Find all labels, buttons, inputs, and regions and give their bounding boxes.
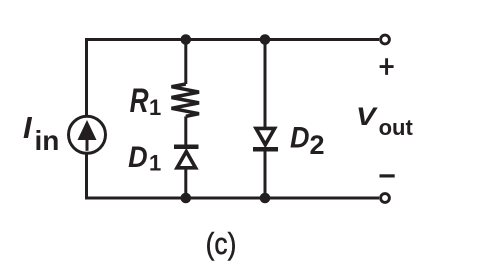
current source arrow head <box>78 120 97 140</box>
wire R1 branch top <box>184 40 187 85</box>
diode D1 cathode bar <box>174 145 199 150</box>
svg-text:1: 1 <box>149 95 161 120</box>
wire left branch lower <box>85 154 88 200</box>
node junction dot bottom right <box>260 193 271 204</box>
svg-text:I: I <box>23 110 33 145</box>
plus sign <box>380 58 394 75</box>
wire D2 branch top <box>264 40 267 128</box>
svg-text:(c): (c) <box>206 227 237 261</box>
wire bottom rail <box>87 197 380 200</box>
svg-text:V: V <box>356 103 378 131</box>
current source arrow tail <box>86 138 89 151</box>
node junction dot top left <box>181 34 192 45</box>
wire D1 to bottom <box>184 170 187 199</box>
svg-text:2: 2 <box>310 130 325 160</box>
svg-text:in: in <box>35 125 60 156</box>
wire left branch upper <box>85 38 88 116</box>
terminal circle top right <box>381 35 390 44</box>
diode D1 triangle <box>177 152 196 168</box>
svg-text:1: 1 <box>149 151 161 176</box>
diode D2 triangle <box>256 128 275 144</box>
node junction dot bottom left <box>181 193 192 204</box>
minus sign <box>380 174 395 177</box>
svg-text:D: D <box>290 122 310 155</box>
svg-text:D: D <box>128 141 148 174</box>
current source I_in circle <box>69 116 106 153</box>
wire top rail <box>87 38 380 41</box>
svg-text:out: out <box>379 115 414 140</box>
wire D2 to bottom <box>264 152 267 199</box>
node junction dot top right <box>260 34 271 45</box>
svg-text:R: R <box>130 82 149 120</box>
wire R1 to D1 <box>184 116 187 145</box>
diode D2 cathode bar <box>253 147 278 152</box>
resistor R1 <box>172 84 200 116</box>
terminal circle bottom right <box>381 194 390 203</box>
